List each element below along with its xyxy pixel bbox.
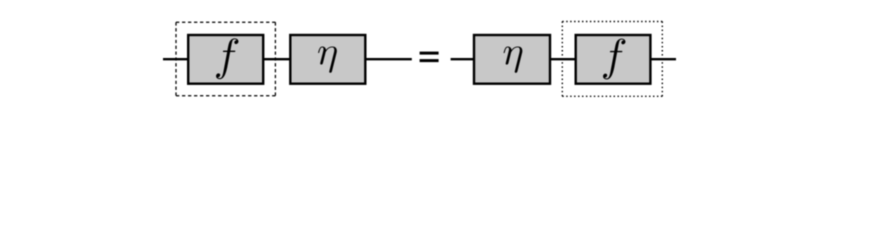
equals sign	[420, 52, 439, 63]
dashed functor boundary around left box f	[176, 22, 275, 95]
label eta (right box)	[504, 47, 523, 73]
label f (right box)	[603, 39, 625, 80]
box f (right)	[576, 35, 651, 84]
box f (left)	[188, 35, 263, 84]
wire (right side, from equals to output)	[451, 58, 676, 60]
dotted functor boundary around right box f	[562, 22, 662, 97]
box eta (left)	[290, 35, 365, 84]
box eta (right)	[474, 35, 550, 84]
label f (left box)	[216, 38, 238, 79]
label eta (left box)	[318, 46, 337, 72]
wire (left side, input through boxes to equals)	[163, 58, 412, 60]
